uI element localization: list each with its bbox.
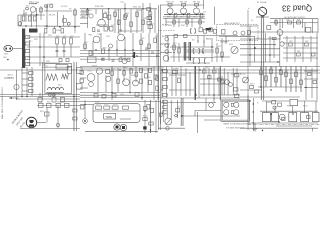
junction xyxy=(84,104,85,105)
wire xyxy=(20,15,22,26)
svg-text:RV1: RV1 xyxy=(229,44,233,46)
resistor S c xyxy=(199,28,202,32)
transistor TR14 xyxy=(106,76,111,81)
dashed box radio board xyxy=(217,25,259,41)
resistor R44 xyxy=(306,27,311,32)
resistor sel 1 xyxy=(163,100,168,103)
wire xyxy=(16,70,18,100)
wire xyxy=(302,36,304,62)
svg-text:R90: R90 xyxy=(111,69,114,71)
pot preset xyxy=(14,84,19,89)
wire xyxy=(240,35,250,37)
resistor S f xyxy=(213,29,216,33)
svg-text:R110: R110 xyxy=(250,84,254,86)
resistor R61 xyxy=(89,51,92,56)
resistor R67 xyxy=(154,38,157,43)
wire xyxy=(46,5,48,29)
wire xyxy=(283,37,318,39)
svg-text:TR4: TR4 xyxy=(150,24,154,26)
svg-text:R106: R106 xyxy=(231,74,236,76)
resistor R20 xyxy=(124,15,127,20)
wire xyxy=(153,66,155,100)
wire xyxy=(178,18,180,27)
capacitor C30 xyxy=(101,59,105,61)
wire xyxy=(195,110,221,112)
wire xyxy=(31,67,33,96)
svg-text:D1: D1 xyxy=(251,20,253,22)
wire xyxy=(21,67,23,96)
resistor R43 xyxy=(267,26,271,30)
resistor RT2 xyxy=(187,13,190,17)
resistor R51 xyxy=(63,38,66,44)
svg-text:A6 OL: A6 OL xyxy=(8,74,15,77)
bracket contact 1 xyxy=(193,49,194,54)
resistor R64 xyxy=(127,58,130,62)
resistor R108 xyxy=(156,76,159,81)
switch contact y62.5 xyxy=(25,63,29,66)
wire xyxy=(27,46,80,48)
wire xyxy=(108,9,110,30)
capacitor C33 xyxy=(145,47,148,49)
wire xyxy=(304,23,306,33)
resistor R130 xyxy=(56,103,61,107)
resistor R4b xyxy=(53,29,56,33)
resistor sel 3 xyxy=(163,111,168,114)
wire xyxy=(283,52,318,54)
junction xyxy=(279,69,280,70)
wire reg2 v0 xyxy=(285,66,287,92)
bracket contact 7 xyxy=(191,29,192,33)
transistor TR17 xyxy=(133,80,139,86)
resistor R147 xyxy=(147,105,150,110)
svg-text:R67: R67 xyxy=(155,36,158,38)
wire xyxy=(185,68,187,96)
svg-text:R164: R164 xyxy=(303,106,308,108)
wire xyxy=(260,110,318,112)
wire xyxy=(160,97,240,99)
transistor TR4b xyxy=(124,14,128,18)
wire xyxy=(100,33,102,49)
wire xyxy=(31,12,33,27)
wire xyxy=(23,10,25,16)
wire divider mid a xyxy=(158,5,160,130)
resistor R94 xyxy=(140,68,143,72)
wire xyxy=(166,21,205,23)
wire xyxy=(80,58,130,60)
wire reg v2 xyxy=(270,66,272,87)
wire xyxy=(171,66,173,96)
wire xyxy=(80,11,88,13)
wire xyxy=(240,61,280,63)
svg-text:TR12: TR12 xyxy=(87,71,92,73)
wire to bus xyxy=(263,16,265,33)
capacitor C41 xyxy=(38,98,42,103)
wire xyxy=(163,100,165,122)
wire dark bus a xyxy=(260,33,262,100)
junction xyxy=(132,49,133,50)
resistor R131 xyxy=(65,103,70,107)
wire xyxy=(197,36,199,43)
bracket contact 4 xyxy=(193,59,194,64)
wire xyxy=(26,67,28,96)
junction xyxy=(270,113,271,114)
wire xyxy=(265,33,267,62)
wire to ground xyxy=(254,123,256,129)
wire xyxy=(191,14,203,16)
junction xyxy=(253,122,254,123)
junction xyxy=(150,129,151,130)
mains filter box xyxy=(56,65,68,70)
wire xyxy=(163,18,205,20)
resistor S d xyxy=(203,29,206,33)
svg-text:TR7 104: TR7 104 xyxy=(193,1,202,3)
wire xyxy=(170,46,186,48)
wire xyxy=(13,48,22,50)
svg-text:R22: R22 xyxy=(138,10,141,12)
wire xyxy=(93,110,140,112)
wire xyxy=(92,41,94,56)
wire xyxy=(200,94,240,96)
junction xyxy=(277,61,278,62)
svg-text:Quad 33: Quad 33 xyxy=(282,4,312,13)
wire top right xyxy=(298,100,319,102)
wire divider right xyxy=(247,10,249,130)
wire xyxy=(80,52,160,54)
wire rail xyxy=(252,98,254,131)
junction xyxy=(254,47,255,48)
wire xyxy=(53,93,55,98)
capacitor C30 xyxy=(101,57,105,59)
dashed feedback wire xyxy=(158,29,175,31)
switch contact y56.5 xyxy=(25,57,29,60)
wire xyxy=(189,72,191,96)
resistor R114 xyxy=(270,69,273,74)
junction xyxy=(292,113,293,114)
wire xyxy=(310,36,312,62)
wire xyxy=(227,72,229,95)
svg-text:R18: R18 xyxy=(116,10,119,12)
junction xyxy=(262,130,263,131)
transistor TR30 xyxy=(277,30,283,36)
resistor R106 xyxy=(234,74,239,77)
resistor R5 xyxy=(63,19,67,23)
junction xyxy=(161,89,162,90)
junction xyxy=(249,54,250,55)
resistor R167 xyxy=(307,116,311,119)
svg-text:R6: R6 xyxy=(69,8,71,10)
resistor R160 xyxy=(272,101,276,104)
resistor R104 xyxy=(213,70,217,73)
selector circle 3 xyxy=(224,110,229,115)
transistor TR16 xyxy=(123,79,130,86)
resistor R2 xyxy=(28,16,31,21)
switch contact y49.5 xyxy=(25,50,29,53)
wire long xyxy=(183,115,240,117)
wire xyxy=(265,101,267,113)
svg-text:R121: R121 xyxy=(308,71,313,73)
wire xyxy=(0,94,80,96)
resistor R matching xyxy=(67,66,71,73)
resistor R111 xyxy=(255,90,259,93)
wire bottom rail xyxy=(85,130,158,132)
wire xyxy=(111,66,113,100)
junction xyxy=(25,25,26,26)
resistor R4c xyxy=(61,29,64,33)
capacitor C12 xyxy=(97,29,100,31)
wire xyxy=(165,18,167,26)
wire xyxy=(180,66,182,96)
wire xyxy=(140,33,142,61)
resistor S e xyxy=(209,28,212,32)
capacitor C21 xyxy=(63,50,66,52)
junction xyxy=(111,92,112,93)
svg-text:MAINS VOLTAGE ADJUSTMENT: MAINS VOLTAGE ADJUSTMENT xyxy=(224,123,252,126)
transformer T1 outline xyxy=(45,64,72,94)
junction xyxy=(202,51,203,52)
selector contact b xyxy=(231,111,233,114)
resistor R40 xyxy=(288,21,292,24)
selector circle 2 xyxy=(234,102,239,107)
svg-text:R50: R50 xyxy=(56,36,59,38)
svg-text:R100: R100 xyxy=(173,69,178,71)
wire xyxy=(44,10,72,12)
wire xyxy=(240,54,280,56)
socket pin L xyxy=(5,48,7,50)
wire xyxy=(247,95,249,121)
wire main bus 2 xyxy=(80,66,320,68)
wire xyxy=(250,31,318,33)
wire dark b xyxy=(182,98,184,126)
svg-text:R70: R70 xyxy=(173,43,176,45)
svg-text:TR11: TR11 xyxy=(268,38,272,40)
wire xyxy=(70,44,72,57)
resistor R134 xyxy=(73,117,77,120)
capacitor C34 xyxy=(151,51,154,53)
svg-text:R104: R104 xyxy=(213,68,218,70)
neon lamp xyxy=(56,123,59,126)
wire stub xyxy=(312,128,314,131)
junction xyxy=(108,49,109,50)
resistor above TR5 xyxy=(168,3,172,6)
junction xyxy=(270,89,271,90)
arrowhead xyxy=(9,97,12,99)
svg-text:C15: C15 xyxy=(203,12,206,14)
resistor R62 xyxy=(102,49,105,54)
wire xyxy=(170,100,172,120)
junction xyxy=(221,56,222,57)
pot arrow P3 xyxy=(166,119,171,125)
resistor radio R2 xyxy=(248,31,251,35)
resistor R27 xyxy=(110,27,114,32)
resistor R124 xyxy=(234,94,239,97)
junction xyxy=(199,69,200,70)
transistor radio TR1 xyxy=(233,31,237,35)
wire xyxy=(283,42,318,44)
resistor chain d xyxy=(148,25,153,28)
capacitor C5 xyxy=(50,5,53,7)
capacitor C33 xyxy=(145,48,148,50)
junction xyxy=(253,111,254,112)
wire xyxy=(130,9,132,33)
resistor chain a xyxy=(147,8,151,11)
wire xyxy=(80,23,88,25)
wire xyxy=(279,33,281,66)
wire xyxy=(286,36,288,62)
resistor R98 xyxy=(102,95,106,99)
resistor R19 xyxy=(118,20,121,25)
svg-text:C1 25: C1 25 xyxy=(48,4,53,6)
bracket contact 8 xyxy=(194,29,195,33)
transistor TR10 xyxy=(109,44,113,48)
wire xyxy=(96,24,108,26)
wire arrow lead xyxy=(9,97,19,99)
resistor col2 y93.5 xyxy=(163,94,167,97)
wire xyxy=(108,48,110,61)
svg-text:R41: R41 xyxy=(297,20,300,22)
svg-text:R20 1M: R20 1M xyxy=(133,7,141,9)
wire xyxy=(80,49,160,51)
junction xyxy=(169,14,170,15)
wire xyxy=(123,66,125,82)
wire xyxy=(173,15,175,28)
wire xyxy=(275,19,277,26)
wire xyxy=(269,36,271,62)
resistor R132 xyxy=(45,112,50,116)
junction xyxy=(26,96,27,97)
transistor TR22 xyxy=(122,59,127,64)
resistor R60 xyxy=(84,44,87,49)
resistor chain c xyxy=(147,21,152,24)
transistor TR2 xyxy=(89,14,93,18)
wire xyxy=(218,68,220,96)
wire xyxy=(120,118,131,120)
svg-text:R145: R145 xyxy=(143,116,148,118)
resistor R15 xyxy=(86,10,89,15)
wire xyxy=(144,100,146,133)
resistor R63 xyxy=(119,58,122,62)
junction xyxy=(46,25,47,26)
junction xyxy=(247,100,248,101)
transistor TR18 xyxy=(225,80,230,85)
wire xyxy=(200,83,226,85)
wire xyxy=(221,38,223,62)
resistor chain b xyxy=(147,16,152,19)
resistor R95b xyxy=(154,75,157,79)
junction xyxy=(7,59,8,60)
transistor TR5 xyxy=(167,8,173,14)
svg-text:TR6 104: TR6 104 xyxy=(180,1,189,3)
wire xyxy=(80,14,88,16)
svg-text:RADIO ADAPTOR: RADIO ADAPTOR xyxy=(224,22,240,25)
resistor R26 xyxy=(104,27,108,32)
switch contact y35.5 xyxy=(25,36,29,39)
switch S1 pole xyxy=(134,52,136,58)
resistor R101 xyxy=(178,78,181,83)
wire xyxy=(175,70,177,96)
resistor edge 2 xyxy=(77,83,83,89)
wire xyxy=(283,47,318,49)
wire xyxy=(240,38,280,40)
resistor ladder y71.5 xyxy=(29,72,34,75)
wire xyxy=(316,66,318,100)
wire xyxy=(80,104,93,106)
svg-text:R40: R40 xyxy=(286,20,289,22)
resistor R80 xyxy=(289,43,293,46)
transformer core line xyxy=(47,92,64,94)
wire xyxy=(211,38,213,62)
wire xyxy=(283,57,318,59)
DIN plug B xyxy=(120,124,126,130)
wire xyxy=(240,89,262,91)
wire mains lead xyxy=(37,105,80,107)
junction xyxy=(156,55,157,56)
resistor R115 xyxy=(275,78,278,83)
switch bank S2b2 xyxy=(189,42,192,61)
wire xyxy=(177,100,179,118)
transistor TR19 xyxy=(229,83,233,87)
terminal a xyxy=(49,94,52,97)
capacitor C34 xyxy=(151,52,154,54)
wire xyxy=(236,68,238,95)
connector blob xyxy=(206,28,212,30)
wire xyxy=(63,44,65,57)
junction xyxy=(211,46,212,47)
junction xyxy=(196,14,197,15)
resistor R120 xyxy=(300,80,303,85)
wire xyxy=(232,68,234,95)
switch bank S2a xyxy=(183,42,186,61)
resistor col2 y77.5 xyxy=(163,78,167,81)
svg-text:R16 1K: R16 1K xyxy=(104,12,111,14)
resistor R103 xyxy=(208,76,212,79)
transistor TR9 xyxy=(118,34,125,41)
wire xyxy=(294,36,296,62)
wire xyxy=(53,26,55,29)
wire xyxy=(170,56,190,58)
svg-text:+: + xyxy=(248,6,250,10)
resistor R107 xyxy=(234,88,239,91)
resistor R52 xyxy=(70,38,73,44)
wire xyxy=(273,38,275,58)
wire bottom xyxy=(240,127,318,129)
rectifier block xyxy=(290,99,298,105)
wire xyxy=(22,90,29,92)
wire xyxy=(142,3,144,33)
wire xyxy=(214,7,216,25)
wire xyxy=(155,100,157,133)
wire xyxy=(156,33,158,66)
resistor R100 xyxy=(173,71,178,74)
wire xyxy=(22,78,29,80)
wire xyxy=(202,0,204,9)
junction xyxy=(161,69,162,70)
resistor R148 xyxy=(144,107,148,111)
resistor R105 xyxy=(218,78,222,81)
capacitor C1 xyxy=(40,8,43,12)
wire xyxy=(40,6,42,20)
svg-text:R b: R b xyxy=(29,76,32,78)
wire reg v0 xyxy=(260,66,262,87)
wire xyxy=(203,36,205,48)
tone board outline xyxy=(121,9,142,31)
wire xyxy=(282,19,284,28)
pot wiper b xyxy=(165,44,169,48)
wire xyxy=(279,35,281,40)
resistor R113 xyxy=(265,76,268,81)
resistor R90 xyxy=(111,71,114,76)
svg-text:R60: R60 xyxy=(84,42,87,44)
resistor R32 xyxy=(199,20,202,24)
